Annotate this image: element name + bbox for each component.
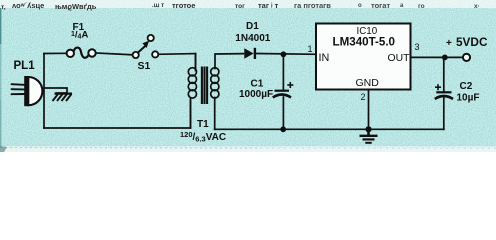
svg-text:S1: S1 (138, 60, 151, 72)
wire C2 upper lead (443, 57, 445, 91)
wire IC OUT to terminal (411, 56, 464, 58)
wire C1 upper lead (282, 54, 284, 90)
svg-text:таг ʲ т: таг ʲ т (258, 1, 279, 10)
bottom perforation speckle (0, 147, 260, 150)
svg-text:2: 2 (361, 92, 366, 102)
svg-text:1: 1 (308, 44, 313, 54)
svg-text:PL1: PL1 (14, 60, 36, 72)
wire switch to transformer primary (158, 53, 196, 56)
svg-text:D1: D1 (246, 21, 259, 32)
svg-text:IN: IN (319, 52, 330, 64)
wire IC GND lead (368, 90, 370, 130)
svg-text:га пготагв: га пготагв (294, 1, 331, 10)
IC10 regulator box (308, 24, 420, 103)
wire fuse to switch (95, 53, 133, 55)
wire top-left rail to fuse (44, 52, 67, 54)
svg-text:C2: C2 (460, 81, 473, 92)
top edge text fragments (1, 1, 480, 11)
wire secondary top lead (215, 54, 244, 69)
svg-text:њмϱԜвґдь: њмϱԜвґдь (55, 2, 97, 11)
cyan panel (0, 8, 496, 146)
wire C1 lower lead (282, 97, 284, 129)
svg-text:LM340T-5.0: LM340T-5.0 (333, 36, 396, 49)
diode D1 (235, 21, 270, 59)
switch S1 (133, 35, 159, 72)
wire C2 lower lead (443, 97, 445, 130)
svg-text:+: + (446, 38, 452, 49)
chassis ground at plug (44, 88, 72, 101)
svg-text:тготое: тготое (172, 1, 195, 10)
svg-text:тогат: тогат (371, 1, 390, 10)
bottom light strip (0, 146, 496, 152)
svg-text:о: о (358, 3, 362, 9)
earth ground symbol (360, 129, 378, 143)
wire secondary bottom lead (214, 98, 216, 130)
svg-text:10µF: 10µF (457, 93, 480, 104)
node junction at GND rail (365, 126, 371, 132)
svg-text:тог: тог (235, 3, 245, 10)
wire diode to IC IN pin (257, 53, 316, 56)
svg-text:GND: GND (356, 77, 380, 89)
fuse F1 (67, 22, 96, 58)
svg-text:ʌоʷˊʎsце: ʌоʷˊʎsце (12, 1, 44, 10)
svg-text:х·: х· (474, 3, 480, 10)
svg-text:C1: C1 (251, 78, 264, 89)
left edge scan artifact (0, 8, 2, 148)
polarity mark + of C2 (435, 84, 441, 90)
svg-text:т,: т, (1, 4, 6, 11)
wire primary bottom lead (190, 101, 192, 128)
node junction at C1 top (281, 51, 287, 57)
wire left vertical rail (43, 54, 45, 129)
svg-text:го: го (418, 3, 425, 10)
background paper (0, 0, 496, 152)
transformer T1 (180, 54, 226, 144)
svg-text:1000µF: 1000µF (239, 89, 273, 100)
svg-text:1N4001: 1N4001 (235, 33, 270, 44)
svg-text:3: 3 (415, 42, 420, 52)
plug PL1 (12, 60, 45, 106)
+5VDC output terminal (446, 35, 488, 61)
polarity mark + of C1 (287, 82, 293, 88)
wire primary top lead (195, 54, 197, 71)
svg-text:.ա т: .ա т (152, 3, 164, 9)
wire bottom-left rail (44, 127, 191, 129)
node junction at OUT (442, 55, 448, 61)
capacitor C1 (239, 78, 293, 100)
svg-text:5VDC: 5VDC (456, 35, 488, 49)
svg-text:OUT: OUT (388, 53, 411, 64)
svg-text:T1: T1 (197, 119, 209, 130)
node junction at C1 bottom (280, 126, 286, 132)
wire bottom-right ground rail (215, 128, 444, 130)
capacitor C2 (435, 81, 480, 104)
